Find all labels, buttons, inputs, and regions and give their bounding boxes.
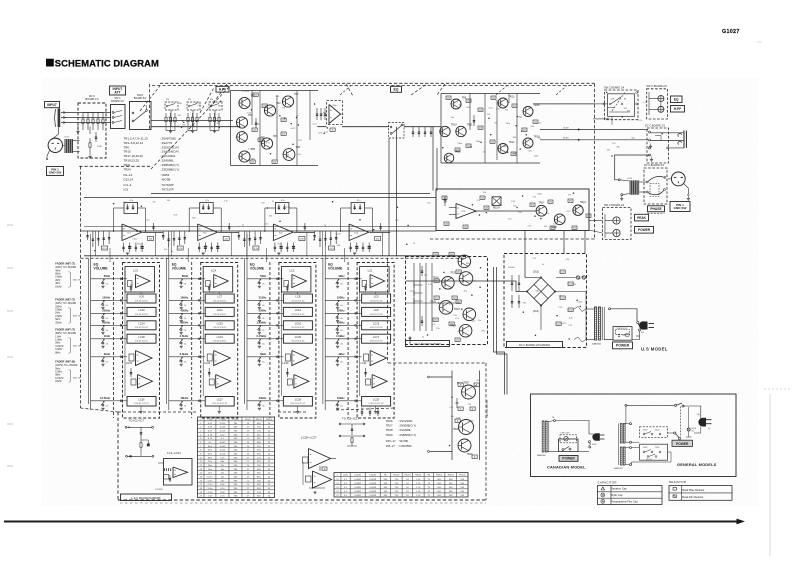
transistor TR19 xyxy=(573,205,583,215)
filter block LC18 xyxy=(127,334,156,343)
resistor value box xyxy=(446,96,451,99)
resistor value box xyxy=(272,160,277,163)
resistor value box xyxy=(449,322,454,325)
stage drop wires xyxy=(322,231,324,256)
capacitor xyxy=(418,127,420,137)
stage caps upper xyxy=(153,223,155,231)
wires canadian bottom xyxy=(547,451,558,453)
stack internal bus xyxy=(124,270,126,396)
stage drop wires xyxy=(246,231,248,256)
label POWER US xyxy=(613,342,633,349)
transistor TR6 xyxy=(261,138,272,149)
resistor value box xyxy=(490,140,495,143)
wire pot to LC xyxy=(270,299,284,301)
wire to output jacks xyxy=(651,132,685,134)
gnd stage xyxy=(277,252,280,254)
wire drops from eq row xyxy=(90,234,92,258)
eq stage IC4 feedback box xyxy=(351,203,365,214)
transistor TR24 xyxy=(459,324,472,337)
models outer box xyxy=(531,394,737,477)
board SW C BOARD 5/4 box xyxy=(130,102,152,130)
transistor TR10 xyxy=(440,126,450,136)
eq row inner top line xyxy=(151,192,430,194)
wire pot to LC xyxy=(114,356,128,358)
input jack J1 xyxy=(58,109,61,128)
gnd stage xyxy=(353,252,356,254)
stage lower components xyxy=(274,243,276,253)
resistor value box xyxy=(491,96,496,99)
wire input ground drop xyxy=(77,123,79,132)
wire drops from eq row xyxy=(324,234,326,258)
wire pot to LC xyxy=(114,338,128,340)
feedback wires xyxy=(341,207,352,209)
wire pot to LC xyxy=(270,324,284,326)
ac plug canadian xyxy=(592,433,599,441)
label INPUT ATT xyxy=(110,86,126,95)
gnd stage xyxy=(202,252,205,254)
wire pot to LC xyxy=(348,400,362,402)
transistor TR15 xyxy=(523,107,533,117)
capacitor legend symbol xyxy=(601,487,605,490)
stage drop wires xyxy=(170,231,172,256)
eq stage IC1 feedback box xyxy=(124,203,138,214)
ground switch SW1 body xyxy=(48,138,62,152)
resistor value box xyxy=(568,199,573,202)
wire pot to LC xyxy=(192,299,206,301)
eq volume column 4 stack box xyxy=(357,263,394,419)
connector INPUT label xyxy=(45,102,60,108)
filter block LC27 xyxy=(205,397,234,407)
resistor value box xyxy=(478,108,483,111)
transistor TR22 xyxy=(459,272,473,286)
resistor value box xyxy=(533,120,538,123)
filter block LC17 xyxy=(362,334,391,343)
wire drops from eq row xyxy=(246,234,248,258)
resistor value box xyxy=(250,160,255,163)
fuse canadian xyxy=(589,441,591,443)
wire T1 top lead xyxy=(609,308,611,310)
resistor cluster IC5 xyxy=(442,196,447,199)
dashed edge at x149 xyxy=(149,84,151,130)
board label DE C BOARD xyxy=(406,341,450,347)
wires rectifier xyxy=(488,281,527,292)
filter block LC25 xyxy=(362,397,391,407)
resistor value box xyxy=(452,296,457,299)
wire general top xyxy=(625,404,627,406)
filter block LC4 xyxy=(203,267,233,293)
svg-text:SCHEMATIC DIAGRAM: SCHEMATIC DIAGRAM xyxy=(55,57,159,68)
op-amp LC28 xyxy=(309,449,331,469)
wire hpf out xyxy=(318,126,327,128)
resistor value box xyxy=(474,383,479,386)
op-amp LC27 xyxy=(313,471,332,488)
diode D7 xyxy=(444,196,446,206)
op-amp IC4 xyxy=(349,224,369,241)
wires below stack xyxy=(140,293,142,295)
wire to general plug xyxy=(683,406,701,419)
wire pot to LC xyxy=(270,400,284,402)
filter block LC20 xyxy=(283,334,312,343)
lamp EQ xyxy=(658,96,664,102)
wire pot to LC xyxy=(114,278,128,280)
transistor TR1 xyxy=(239,97,250,108)
dashed diagonal b xyxy=(211,84,228,107)
wire plug stem xyxy=(684,184,689,195)
wire pot to LC xyxy=(192,356,206,358)
diagonal ticks on top boundary xyxy=(340,86,351,96)
stack internal bus xyxy=(359,270,361,396)
lamp POWER xyxy=(613,229,620,236)
wires output box to sw4 xyxy=(589,220,603,222)
value table small xyxy=(334,473,468,498)
board boundary diagonals xyxy=(151,86,230,169)
capacitor xyxy=(424,127,426,137)
eq volume column 3 stack box xyxy=(279,263,316,419)
lamp HPF xyxy=(658,106,664,112)
stage lower components xyxy=(123,243,125,253)
resistor value box xyxy=(262,104,267,107)
resistor value box xyxy=(512,104,517,107)
resistor network in DC C board xyxy=(82,113,84,120)
transistor TR5 xyxy=(239,151,250,162)
filter block LC7 xyxy=(205,294,234,303)
wire pot to LC xyxy=(192,338,206,340)
resistor legend symbols xyxy=(673,488,676,491)
wire gnd sw drop xyxy=(47,151,50,159)
wire input lines xyxy=(61,112,111,114)
eq stage IC3 feedback box xyxy=(275,203,289,214)
resistor value box xyxy=(456,270,461,273)
wire pot to LC xyxy=(348,324,362,326)
stage caps upper xyxy=(380,223,382,231)
resistor value box xyxy=(478,126,483,129)
board label DC C BOARD 1/3 xyxy=(507,342,563,348)
wire plug leads xyxy=(632,336,640,340)
filter capacitors xyxy=(511,275,513,291)
wire pot to LC xyxy=(348,278,362,280)
fader bus verticals xyxy=(322,258,324,404)
resistor R2 xyxy=(89,138,91,143)
filter block LC1 xyxy=(360,267,390,293)
wire power rails down from output box xyxy=(563,231,565,254)
label POWER xyxy=(635,227,654,234)
resistor value box xyxy=(530,203,535,206)
gnd stage xyxy=(126,252,129,254)
fader bus verticals xyxy=(87,258,89,404)
op-amp IC1 xyxy=(122,224,142,241)
op-amp IC5 xyxy=(456,204,476,219)
hpf stage rails xyxy=(231,90,319,92)
wire eq rail xyxy=(342,126,389,128)
wire jack to gnd switch xyxy=(53,127,59,139)
wire pot to LC xyxy=(192,312,206,314)
filter op-amp lower xyxy=(372,375,387,389)
op-amp IC2 xyxy=(198,224,218,241)
eq main rail xyxy=(81,230,437,232)
ac plug US model xyxy=(639,321,647,329)
stage input components xyxy=(314,231,316,240)
transistor TR25 xyxy=(536,205,547,216)
switch phase contacts xyxy=(646,181,648,183)
eq row bottom line xyxy=(84,255,466,257)
wire upper att rail xyxy=(151,120,233,122)
filter block LC16 xyxy=(283,321,312,330)
filter block LC19 xyxy=(205,334,234,343)
resistor value box xyxy=(281,118,286,121)
zener diodes xyxy=(409,336,411,344)
switch contacts SW3 xyxy=(112,112,114,114)
wire pot to LC xyxy=(114,400,128,402)
wire buffer to SW C1/4 xyxy=(508,94,510,104)
switch SW5 contacts xyxy=(132,112,134,114)
stage lower components xyxy=(350,243,352,253)
wire pot to LC xyxy=(270,278,284,280)
wire pot to LC xyxy=(114,312,128,314)
wires lower middle xyxy=(302,462,304,485)
board label LE C BOARD xyxy=(121,494,172,501)
wire pot to LC xyxy=(192,278,206,280)
filter block LC9 xyxy=(362,307,391,316)
capacitor xyxy=(412,127,414,137)
bottom rule line xyxy=(4,521,737,523)
attenuator network xyxy=(165,102,178,110)
legend capacitor table xyxy=(598,486,663,505)
resistor value box xyxy=(455,419,460,422)
sparkkiller box xyxy=(613,327,632,341)
transistor TR21 xyxy=(458,255,471,268)
wire bus down from switch xyxy=(388,138,390,256)
resistor value box xyxy=(434,279,439,282)
transistor TR23 xyxy=(463,308,476,321)
capacitor bank before opamp xyxy=(316,108,318,120)
regulator resistors xyxy=(560,270,565,273)
resistor value box xyxy=(456,300,461,303)
gnd marks in DC C 2/3 xyxy=(649,145,652,147)
wire pot to LC xyxy=(270,338,284,340)
switch EQ defeat xyxy=(389,123,405,139)
transistor TR16 xyxy=(523,138,533,148)
filter block LC15 xyxy=(205,321,234,330)
wire coil leads xyxy=(615,160,619,180)
resistor value box xyxy=(281,132,286,135)
filter op-amp lower xyxy=(216,375,231,389)
switch PIN 1 GND SW label xyxy=(47,167,64,176)
capacitor C7 xyxy=(255,118,257,128)
transformer phase coil xyxy=(630,180,640,194)
wire drops from eq row xyxy=(168,234,170,258)
resistor R31 xyxy=(330,128,335,131)
eq volume column 1 stack box xyxy=(123,263,160,419)
label EQ xyxy=(391,86,402,92)
wires below stack xyxy=(218,293,220,295)
capacitor C1 xyxy=(95,132,97,142)
filter block LC11 xyxy=(205,307,234,316)
zener D15 xyxy=(456,398,458,408)
board boundary dashed right xyxy=(594,84,596,239)
eq rail upper xyxy=(84,226,436,228)
resistor value box xyxy=(433,253,438,256)
filter block LC8 xyxy=(283,294,312,303)
margin marks xyxy=(7,224,13,226)
capacitor C15 xyxy=(473,115,475,126)
wire pot to LC xyxy=(348,299,362,301)
board LE C dashed outline xyxy=(117,412,119,500)
board boundary dashed top xyxy=(152,85,595,87)
transistor TR2 xyxy=(264,105,275,116)
transistor TR29 xyxy=(458,439,471,452)
feedback wires xyxy=(114,207,125,209)
tr27 column rails xyxy=(451,371,453,461)
canadian switch box xyxy=(559,439,579,452)
wire pot to LC xyxy=(114,299,128,301)
capacitor block C2 xyxy=(65,139,74,153)
op-amp A1 xyxy=(329,105,341,124)
voltage selector box 2 xyxy=(640,444,668,460)
lamp PEAK xyxy=(613,217,620,224)
wire gnd sw to cap block xyxy=(63,144,65,146)
output stage board box xyxy=(436,189,589,231)
resistor value box xyxy=(550,226,555,229)
capacitor bank power xyxy=(421,266,423,276)
fuse F1 xyxy=(576,276,579,279)
filter block LC10 xyxy=(127,307,156,316)
capacitor legend symbol xyxy=(601,493,605,497)
resistor value box xyxy=(586,214,591,217)
wire transformer link xyxy=(586,308,595,310)
resistor value box xyxy=(466,99,471,102)
resistor value box xyxy=(466,144,471,147)
power switch general dashed link xyxy=(674,404,676,406)
transistor HPF xyxy=(237,132,248,143)
resistor value box xyxy=(253,93,258,96)
transistor TR9 xyxy=(451,99,461,109)
wire outputs to DC C 2/3 xyxy=(540,129,648,131)
filter block LC3 xyxy=(125,267,155,293)
trim network 2 xyxy=(339,423,341,425)
stage caps upper xyxy=(228,223,230,231)
resistor value box xyxy=(470,407,475,410)
op-amp lower left block xyxy=(164,459,193,486)
board DC C BOARD 1/3 dashed xyxy=(504,254,587,348)
stage input components xyxy=(162,231,164,240)
resistor value box xyxy=(458,407,463,410)
board boundary dashed top-left horizontal xyxy=(79,165,151,167)
wires below stack xyxy=(375,293,377,295)
ac plug circle xyxy=(671,172,685,186)
wire pot to LC xyxy=(348,338,362,340)
resistor value box xyxy=(522,128,527,131)
resistor value box xyxy=(449,253,454,256)
eq row top line xyxy=(84,197,436,199)
ac plug general xyxy=(698,418,706,427)
relay RY1 xyxy=(492,197,501,206)
wire plug to board xyxy=(668,178,672,180)
wires power to models box xyxy=(494,267,505,395)
label PEAK xyxy=(635,214,649,221)
board boundary dashed left vertical xyxy=(80,166,82,408)
wire pot to LC xyxy=(348,312,362,314)
wires into SW board xyxy=(595,103,608,105)
attenuator network xyxy=(209,102,222,110)
op-amp IC3 xyxy=(273,224,293,241)
svg-text:G1027: G1027 xyxy=(722,29,740,35)
voltage selector box 1 xyxy=(640,427,668,438)
transformer T1 xyxy=(595,307,597,340)
resistor value box xyxy=(572,226,577,229)
dashed line below eq row xyxy=(81,257,467,259)
stage input components xyxy=(238,231,240,240)
connector output jack xyxy=(678,133,682,136)
transistor TR3 xyxy=(236,117,247,128)
feedback wires xyxy=(189,207,200,209)
wire main rail input att xyxy=(151,126,241,128)
fuse general xyxy=(687,428,690,431)
board DC C BOARD 1/3 outline xyxy=(78,103,106,158)
wires selector xyxy=(632,441,640,443)
wire pot to LC xyxy=(270,312,284,314)
wire T1 bottom lead xyxy=(604,339,613,341)
stage lower components xyxy=(198,243,200,253)
transistor TR8 xyxy=(283,149,295,161)
op-amp buffer dashed box xyxy=(327,101,343,125)
resistor value box xyxy=(258,138,263,141)
resistor value box xyxy=(511,152,516,155)
cap string at op-amp input xyxy=(163,468,165,471)
filter block LC26 xyxy=(127,397,156,407)
transistor TR13 xyxy=(498,98,508,108)
wire bus to output box xyxy=(432,127,434,191)
resistor value box xyxy=(434,296,439,299)
fader bus verticals xyxy=(166,258,168,404)
wire pot to LC xyxy=(270,356,284,358)
resistor value box xyxy=(433,318,438,321)
wire eq to right xyxy=(404,126,433,128)
resistor value box xyxy=(472,455,477,458)
fader bus verticals xyxy=(244,258,246,404)
stage caps upper xyxy=(304,223,306,231)
filter block LC13 xyxy=(362,321,391,330)
wire DC C2/3 down to phase board xyxy=(615,155,650,160)
legend resistor table xyxy=(669,486,732,501)
label EQ small xyxy=(671,96,683,103)
value table large xyxy=(198,417,275,498)
title block SCHEMATIC DIAGRAM xyxy=(46,59,54,67)
label H.PF small xyxy=(671,106,685,113)
filter block LC28 xyxy=(283,397,312,407)
power rails xyxy=(413,263,415,331)
filter op-amp lower xyxy=(294,375,309,389)
label POWER canadian xyxy=(559,456,578,462)
stage drop wires xyxy=(95,231,97,256)
board SW C BOARD 3/4 box xyxy=(111,105,126,129)
eq buffer rails xyxy=(441,93,540,95)
resistor value box xyxy=(252,128,257,131)
filter block LC12 xyxy=(283,307,312,316)
label POWER general xyxy=(672,440,693,446)
transistor TR26 xyxy=(554,214,565,225)
label H.PF xyxy=(216,86,229,92)
wire canadian top xyxy=(554,420,556,422)
wire plug drop xyxy=(694,427,701,434)
filter block LC6 xyxy=(127,294,156,303)
transistor TR12 xyxy=(444,153,454,163)
capacitor xyxy=(430,127,432,137)
eq stage IC2 feedback box xyxy=(200,203,214,214)
dashed diagonal in SW board xyxy=(612,92,625,111)
stack internal bus xyxy=(202,270,204,396)
power switch US xyxy=(637,321,639,323)
transistor TR14 xyxy=(498,144,508,154)
